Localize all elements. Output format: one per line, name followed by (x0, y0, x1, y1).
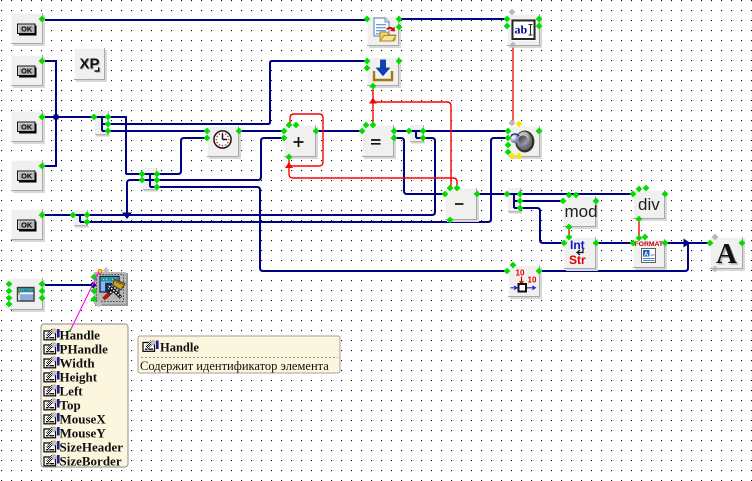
pins of Form (6, 281, 13, 288)
hint anchor dot (98, 269, 102, 273)
wire H1.out1 to H2.in1 (108, 117, 142, 174)
wire IntStr to Format (596, 242, 633, 244)
selected MultiElement block (94, 272, 128, 306)
svg-text:SizeBorder: SizeBorder (60, 453, 122, 468)
Clock block (207, 126, 241, 159)
wire Form to MT element (42, 284, 93, 286)
wire Clock.out to Plus.in1 (239, 130, 284, 132)
pins of MultiElement (103, 267, 110, 274)
wire Equals.out2 to Minus.in (394, 138, 445, 194)
pins of Div (636, 186, 643, 193)
pins of Label A (712, 234, 719, 241)
Equals compare block (362, 125, 396, 159)
wire H2.out2 to Plus.in2 (157, 138, 284, 180)
wire H3.out2 to Speaker.in2 (87, 138, 508, 222)
hub H3 (74, 210, 89, 228)
svg-text:10: 10 (528, 276, 537, 285)
red wire Plus result loop to Plus.data1 (289, 114, 323, 166)
wire Plus.out to Equals.in (316, 130, 362, 132)
property list popup (41, 324, 128, 468)
hub H1 (95, 111, 110, 137)
svg-text:Top: Top (60, 397, 81, 412)
wire Equals.out1 to hub H5 (394, 130, 409, 132)
hint popup Handle (138, 336, 340, 373)
pins of OK blocks (39, 16, 46, 23)
pins of Plus (286, 122, 293, 129)
pins of hub H1 (91, 114, 98, 121)
svg-text:A: A (644, 252, 649, 258)
wire junction branch to H2.in2 (127, 180, 142, 215)
wire H5.out1 to Speaker.in1 (423, 130, 508, 132)
Form window block (10, 278, 45, 312)
button block OK1 (11, 13, 45, 46)
Speaker beep block (508, 126, 542, 159)
pins of Mod (566, 192, 573, 199)
svg-text:OK: OK (21, 172, 33, 181)
wire H3.out1 to H5.out2 merge (87, 138, 435, 215)
wire Format to A label (665, 242, 710, 244)
svg-text:Width: Width (60, 355, 96, 370)
Plus math block (284, 125, 318, 159)
Format string block (633, 239, 667, 270)
svg-text:10: 10 (516, 269, 525, 278)
wire H1.out3 to Clock.in1 (108, 130, 207, 132)
button block OK2 (11, 55, 45, 88)
wire OK4 up to junction (42, 118, 56, 166)
red junction arrow at Plus loop (285, 162, 293, 168)
Edit ab| block (507, 14, 542, 48)
pins of hub H3 (70, 212, 77, 219)
wire H1.out2 to Save (108, 61, 367, 124)
Label A block (710, 237, 745, 271)
svg-text:OK: OK (21, 67, 33, 76)
hub H5 (410, 125, 425, 144)
wire Minus.out to hub H4 (477, 193, 507, 195)
pins of Clock (204, 128, 211, 135)
wire H2.out3 to Wait block (157, 187, 507, 271)
pins of Minus (447, 185, 454, 192)
pins of Edit ab| (509, 9, 516, 16)
wire Minus result stub (449, 220, 451, 222)
red wire Edit.data to Speaker.data (512, 45, 514, 122)
wire OK5 to hub H3 (42, 214, 73, 216)
hub H4 (508, 188, 522, 214)
red wire Save.data down to Equals.data (372, 87, 374, 125)
pins of hub H2 (139, 171, 146, 178)
pins of hub H4 (504, 191, 511, 198)
wire OK3 to hub H1 (42, 116, 94, 118)
pins of Save (364, 58, 371, 65)
Minus math block (445, 188, 479, 222)
svg-text:Handle: Handle (60, 327, 101, 342)
wire FileOpen to Edit (399, 18, 507, 20)
SaveFile block (367, 57, 401, 88)
svg-text:MouseY: MouseY (60, 425, 107, 440)
red wire branch to Minus.data1 (373, 102, 451, 188)
Int to Str convert block (564, 237, 598, 271)
FileOpen block (367, 16, 401, 48)
svg-text:SizeHeader: SizeHeader (60, 439, 124, 454)
svg-text:div: div (638, 195, 660, 214)
pins of Speaker (509, 120, 516, 127)
hub H2 (143, 168, 158, 192)
Mod math block (563, 196, 598, 229)
button block OK5 (11, 209, 45, 242)
red wire Plus result to Minus.data2 (289, 157, 457, 188)
svg-text:Содержит идентификатор элемент: Содержит идентификатор элемента (140, 359, 329, 373)
wire OK1 to FileOpen (42, 19, 367, 21)
XP MessageBox block (74, 48, 107, 82)
junction arrow into H2.in2 (122, 213, 132, 220)
junction arrow on Format-A wire (684, 239, 691, 248)
svg-text:PHandle: PHandle (60, 341, 109, 356)
pins of IntStr (566, 234, 573, 241)
svg-text:ab: ab (515, 23, 528, 37)
svg-text:FORMAT: FORMAT (635, 241, 664, 248)
wire OK2 down to junction (42, 61, 56, 117)
wire Wait to junction at Format-A (539, 243, 688, 271)
Wait delay block (508, 265, 542, 299)
svg-text:OK: OK (21, 25, 33, 34)
pins of Equals (363, 122, 370, 129)
svg-text:A: A (716, 238, 737, 270)
svg-text:Height: Height (60, 369, 98, 384)
pins of Wait block (510, 262, 517, 269)
wire H4.out1 to Div.in (520, 193, 633, 195)
svg-text:XP: XP (80, 56, 100, 73)
pins of hub H5 (406, 128, 413, 135)
junction square OK2/OK3/OK4 (54, 115, 59, 120)
red wire Div result to Format (638, 219, 640, 238)
red junction arrow at Save branch (369, 98, 377, 104)
svg-text:Str: Str (569, 253, 586, 267)
svg-text:MouseX: MouseX (60, 411, 107, 426)
svg-text:Handle: Handle (160, 341, 199, 355)
wire H4.out3 to IntStr.in (520, 208, 564, 243)
hint pointer line (70, 272, 99, 331)
wire H2.out1 to Clock.in2 (157, 138, 207, 174)
wire H4.out2 to Mod.in (520, 200, 563, 202)
pins of FileOpen (364, 16, 371, 23)
svg-text:OK: OK (21, 221, 33, 230)
Div math block (633, 190, 667, 221)
svg-text:Left: Left (60, 383, 84, 398)
svg-text:OK: OK (21, 123, 33, 132)
pins of Format (636, 235, 643, 242)
button block OK4 (11, 160, 45, 193)
svg-text:mod: mod (565, 202, 598, 221)
button block OK3 (11, 111, 45, 144)
red wire Mod result to IntStr (568, 227, 570, 237)
